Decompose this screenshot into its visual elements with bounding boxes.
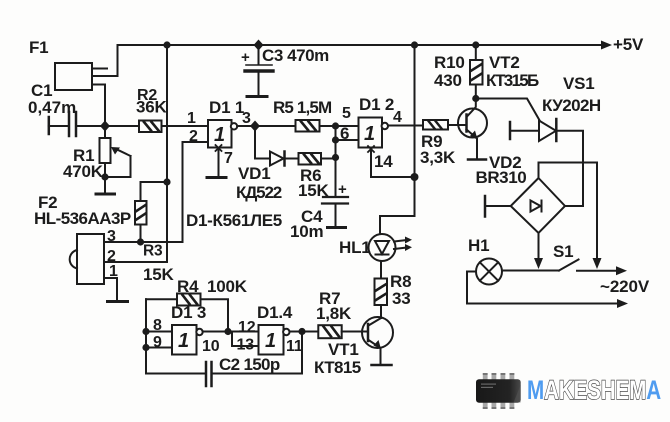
wire D1.1 pin7: [218, 149, 220, 177]
svg-text:0,47m: 0,47m: [28, 98, 76, 117]
svg-text:C2 150p: C2 150p: [219, 355, 280, 374]
svg-text:3: 3: [107, 228, 116, 245]
svg-text:1: 1: [265, 330, 276, 352]
svg-text:36K: 36K: [136, 98, 168, 117]
ground D1.1 pin7: [207, 176, 226, 179]
wire D1.1 pin2: [183, 142, 209, 242]
resistor R4: [146, 294, 228, 332]
resistor R2: [139, 121, 162, 133]
logo chip: [476, 373, 521, 409]
svg-text:+: +: [241, 49, 250, 66]
wire D1.3 pin8: [146, 331, 172, 333]
capacitor C4: [322, 197, 348, 228]
wire R3 tap: [141, 182, 168, 201]
svg-text:+: +: [338, 181, 347, 198]
svg-text:11: 11: [286, 338, 303, 355]
node VT2 emitter arrow: [470, 131, 478, 140]
node D1.1 pin7 cross: [216, 145, 222, 151]
wire VT2 collector to VS1 gate: [476, 99, 540, 121]
resistor R7: [302, 325, 368, 338]
svg-text:3,3K: 3,3K: [420, 148, 456, 167]
node dot R3 bottom on pin3 row: [137, 238, 144, 245]
svg-text:1: 1: [214, 124, 225, 146]
lamp H1: [476, 259, 502, 285]
node arrow VD2 top down: [593, 258, 602, 269]
resistor R6: [299, 153, 336, 165]
svg-text:1: 1: [109, 263, 118, 280]
node dot D1.1 output: [250, 121, 260, 132]
node dot D1.4 out: [298, 328, 305, 335]
wire F1 stub: [92, 68, 107, 70]
node +5V arrow: [601, 41, 612, 50]
svg-text:7: 7: [224, 150, 233, 167]
wire D1.4 pin13 branch: [232, 332, 259, 347]
wire VD2 right vertex: [565, 205, 583, 207]
svg-text:D1-К561ЛЕ5: D1-К561ЛЕ5: [186, 211, 282, 230]
sensor F2: [70, 234, 104, 284]
wire D1.2 out to R9: [388, 125, 423, 127]
svg-text:F1: F1: [29, 38, 48, 57]
node VT2 emitter bar: [468, 158, 486, 161]
wire D1.1 out to R5: [255, 125, 296, 127]
wire oscillator left vertical: [145, 299, 147, 373]
svg-text:D1 2: D1 2: [359, 95, 394, 114]
svg-text:12: 12: [238, 319, 256, 336]
capacitor C2: [146, 332, 302, 387]
svg-text:BR310: BR310: [476, 168, 527, 187]
wire F1 down to C1 node: [92, 85, 105, 127]
svg-text:8: 8: [153, 317, 162, 334]
node dot pin14 junction: [411, 173, 419, 181]
wire C1 node to R2: [105, 125, 139, 127]
svg-text:+5V: +5V: [613, 35, 644, 54]
svg-text:D1.4: D1.4: [257, 303, 293, 322]
wire R9 to VT2 base: [448, 124, 467, 126]
wire node5 to D1.2 pin5: [336, 125, 359, 127]
svg-text:КТ815: КТ815: [314, 358, 361, 377]
svg-text:MAKESHEMA: MAKESHEMA: [527, 375, 661, 405]
node R1 junction dot: [101, 173, 108, 180]
wire vertical x167 rail to F2 pin2: [166, 45, 168, 262]
capacitor C1: [49, 112, 105, 136]
node VD2 left terminal bar: [484, 196, 487, 217]
ground below R1: [96, 177, 115, 194]
wire R8 to VT1: [380, 305, 382, 318]
gate D1.4: [259, 325, 290, 355]
svg-text:R3: R3: [143, 243, 163, 260]
node dot rail R10: [472, 41, 479, 48]
svg-text:14: 14: [374, 152, 393, 171]
svg-text:6: 6: [340, 124, 349, 143]
node dot C3 on rail: [254, 40, 264, 51]
wire vertical x414 rail to HL1: [380, 45, 415, 234]
svg-text:R5 1,5M: R5 1,5M: [273, 98, 332, 117]
wire +5V rail: [118, 44, 604, 46]
svg-text:9: 9: [153, 334, 162, 351]
svg-text:10: 10: [202, 338, 220, 355]
potentiometer R1: [100, 126, 131, 177]
wire D1.1 out: [237, 125, 255, 127]
svg-text:13: 13: [237, 337, 255, 354]
node arrow VD2 bottom down: [534, 258, 543, 269]
svg-text:C3 470m: C3 470m: [262, 46, 329, 65]
svg-text:КД522: КД522: [236, 183, 282, 202]
switch S1: [559, 260, 618, 271]
node dot pin8: [142, 328, 149, 335]
wire F2 pin3 row: [104, 241, 183, 243]
svg-text:~220V: ~220V: [600, 277, 650, 296]
svg-text:33: 33: [392, 289, 411, 308]
wire D1.2 pin14: [371, 150, 415, 177]
resistor R5: [296, 120, 320, 132]
node dot x167 R3 tap: [163, 178, 170, 185]
thyristor VS1: [510, 119, 556, 141]
diode VD1: [270, 152, 299, 166]
svg-text:HL-536АА3Р: HL-536АА3Р: [34, 209, 131, 228]
wire VD2 top to S1 row: [539, 163, 598, 261]
svg-text:VT2: VT2: [489, 53, 520, 72]
resistor R10: [470, 45, 483, 99]
node dot R6/C4: [332, 154, 339, 161]
node junction C1/F1/R1: [100, 121, 110, 132]
svg-text:470K: 470K: [63, 162, 104, 181]
wire F1 to rail: [92, 45, 118, 76]
wire HL1 to R8: [380, 261, 382, 279]
svg-text:1: 1: [178, 330, 189, 352]
resistor R3: [135, 201, 147, 242]
node VT1 emitter arrow: [374, 340, 382, 349]
svg-text:1: 1: [364, 123, 375, 145]
transistor VT2: [458, 99, 487, 160]
svg-text:VS1: VS1: [563, 74, 595, 93]
node R1 wiper arrowhead: [111, 147, 120, 155]
wire D1.3 out: [203, 331, 228, 333]
transistor VT1: [362, 317, 393, 364]
wire D1.3 out to D1.4 pin12: [228, 331, 259, 333]
node dot rail x414: [411, 41, 418, 48]
wire R5 to node5: [320, 125, 336, 127]
svg-text:D1 1: D1 1: [209, 98, 244, 117]
wire F2 pin1 to ground: [104, 278, 117, 301]
svg-text:КТ315Б: КТ315Б: [486, 71, 539, 90]
wire D1.3 pin9: [146, 347, 172, 349]
node dot 5: [332, 122, 339, 129]
svg-text:10m: 10m: [290, 222, 324, 241]
svg-text:R10: R10: [434, 53, 465, 72]
wire VS1 cathode down: [556, 131, 583, 206]
node dot rail x167: [163, 41, 170, 48]
bridge VD2: [511, 178, 565, 233]
node HL1 arrows: [405, 237, 412, 252]
gate D1.1: [208, 120, 237, 148]
wire node6 to D1.2 pin6: [336, 139, 359, 141]
node arrow 220V bottom: [617, 299, 628, 308]
wire R2 to D1.1 pin1: [162, 125, 209, 127]
svg-text:HL1: HL1: [339, 238, 371, 257]
svg-text:VD1: VD1: [238, 164, 270, 183]
node dot pin9: [142, 344, 149, 351]
wire VD2 left vertex: [486, 205, 511, 207]
wire VD2 bottom to S1 row: [538, 233, 540, 260]
ground F2 pin1: [108, 300, 128, 303]
wire D1.4 out: [290, 331, 303, 333]
wire H1 left to bottom 220V row: [467, 272, 619, 304]
node D1.2 pin14 cross: [368, 146, 374, 152]
svg-text:5: 5: [342, 105, 351, 122]
svg-text:4: 4: [393, 109, 402, 126]
logo text MAKESHEMA: [527, 375, 661, 405]
node dot 6: [332, 136, 339, 143]
node dot D1.3 out: [224, 328, 231, 335]
svg-text:H1: H1: [468, 236, 489, 255]
resistor R9: [423, 120, 448, 130]
svg-text:R4: R4: [177, 277, 199, 296]
resistor R8: [375, 279, 388, 306]
svg-text:1,8K: 1,8K: [316, 304, 352, 323]
gate D1.3: [172, 325, 203, 355]
fuse F1: [55, 63, 92, 90]
svg-text:S1: S1: [553, 242, 573, 261]
node VT1 emitter bar: [372, 364, 392, 367]
wire F2 pin2 row: [104, 261, 167, 263]
svg-text:100K: 100K: [207, 277, 248, 296]
svg-text:15K: 15K: [143, 265, 175, 284]
node dot R10 bottom: [472, 95, 479, 102]
svg-text:430: 430: [434, 71, 462, 90]
svg-text:1: 1: [187, 110, 196, 127]
node arrow 220V top: [616, 266, 627, 275]
wire VD1 branch down: [255, 126, 270, 159]
wire H1 right to S1: [502, 270, 559, 272]
svg-text:КУ202Н: КУ202Н: [542, 96, 601, 115]
svg-text:3: 3: [242, 110, 251, 127]
gate D1.2: [359, 118, 388, 148]
svg-text:D1 3: D1 3: [171, 303, 206, 322]
capacitor C3: [245, 45, 273, 97]
LED HL1: [369, 234, 408, 261]
svg-text:VT1: VT1: [328, 340, 359, 359]
wire node column x335: [335, 126, 337, 196]
